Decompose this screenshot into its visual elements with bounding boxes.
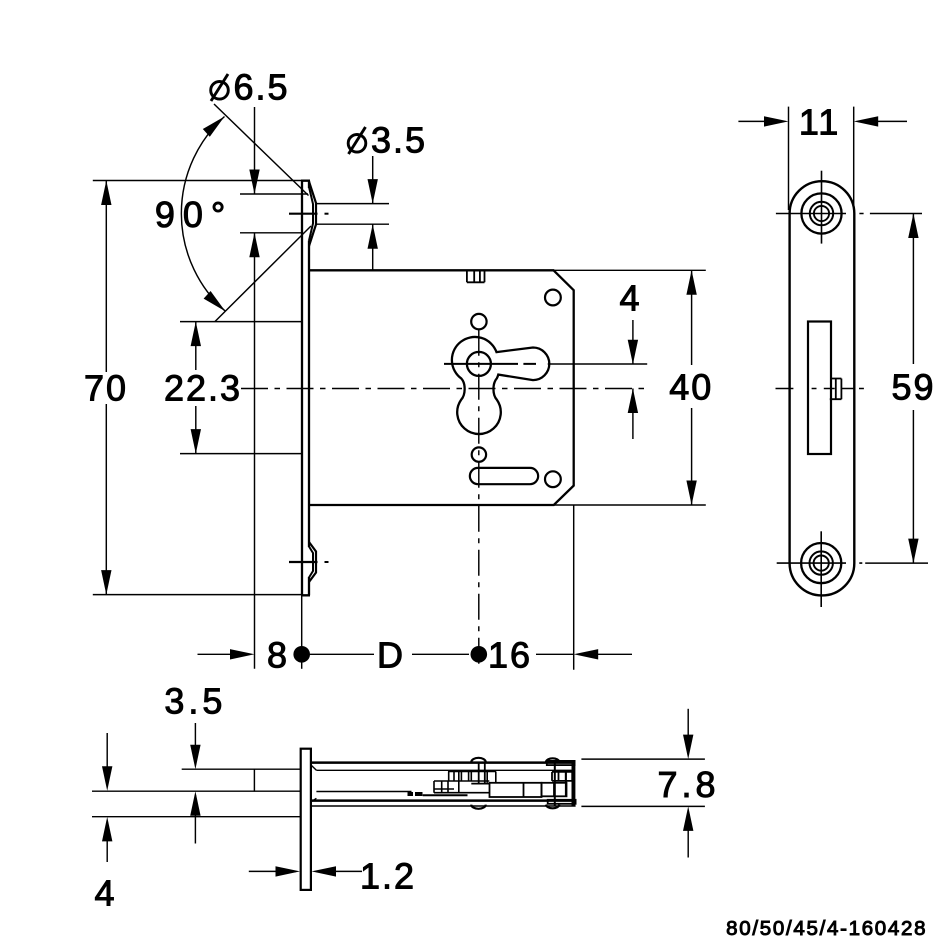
center line continuation through right view [776,388,864,390]
main horizontal center line [241,388,647,390]
bottom hole center tick [289,561,318,563]
svg-text:80/50/45/4-160428: 80/50/45/4-160428 [726,917,927,940]
top layer [182,769,301,791]
top screw hole circles [801,193,841,233]
svg-text:59: 59 [891,367,935,408]
dia6.5 extension lines [240,194,308,233]
case inner top line [316,769,574,771]
dim dia6.5 text [211,82,229,100]
keyhole outline [452,337,549,434]
dot at faceplate [293,646,310,663]
line 8-D [310,653,374,655]
dim 1.2 right arrow [312,866,337,876]
rivet hole bottom right [545,471,561,487]
top hole center tick [289,213,318,215]
svg-text:7.8: 7.8 [657,764,719,805]
end cap verticals [555,763,575,806]
bottom countersunk screw hole bulge outer [309,542,316,582]
rivet hole top right [545,290,561,306]
svg-text:90°: 90° [155,194,233,235]
svg-text:11: 11 [799,101,840,142]
bottom hole center dash [325,561,329,563]
lock case outline [309,270,574,505]
dia3.5 extension lines [316,204,389,225]
top hole crosshair [821,171,823,244]
dim 3.5 lower arrow [194,795,196,844]
svg-text:22.3: 22.3 [164,367,242,408]
dim 40 extension bottom [554,504,706,506]
bumps bottom [471,805,559,809]
right rect [542,783,567,797]
dim dia3.5 upper line [372,156,374,204]
dim 70 extension top [93,180,302,182]
top hole center dash [325,213,329,215]
dim 70 line [105,181,107,595]
dim 1.2 left arrow [249,870,296,872]
case bottom chamfer [311,798,316,802]
dim 59 line [912,214,914,564]
case inner bottom line [316,791,411,793]
dim dia6.5 lower line / extension to 8 [254,233,256,669]
cutout notch [830,379,842,400]
dim dia6.5 leader line upper [254,107,256,194]
faceplate extension down [301,596,303,669]
plate outline [790,181,855,595]
dim 40 extension top [554,269,706,271]
svg-text:4: 4 [619,278,641,319]
90 deg arc [181,117,225,312]
dim 7.8 arrows [687,709,689,755]
middle rect [490,783,542,797]
bottom countersunk screw hole bulge inner [309,547,313,578]
faceplate bar [301,749,311,890]
top countersunk screw hole bulge outer [309,182,316,247]
dim 22.3 extension top [180,321,302,323]
svg-text:8: 8 [267,634,289,675]
svg-text:3.5: 3.5 [164,681,226,722]
line 16-ext [536,653,574,655]
faceplate (front view, edge-on vertical plate) [301,181,310,596]
dot at keyhole center [471,646,488,663]
svg-text:16: 16 [488,634,532,675]
line D-dot [412,653,469,655]
dim 40 line [691,270,693,505]
top right bar [547,761,575,765]
case bottom thick line [311,799,576,802]
upper right boxes [552,772,572,781]
dim 11 extensions [789,107,854,210]
svg-text:70: 70 [84,367,128,408]
dim 70 extension bottom [93,594,302,596]
svg-text:4: 4 [94,873,116,914]
oval slot [470,468,538,484]
left arrow at 16 [574,649,599,659]
dim 4 upper arrow [632,320,634,364]
case top chamfer [311,765,316,770]
dim 7.8 extensions [581,759,705,806]
case back extension down [573,505,575,670]
pilot hole above keyhole [471,314,486,329]
90 deg cone line upper [214,104,309,196]
top countersunk screw hole bulge inner [309,187,313,241]
internal stack left [434,772,496,793]
dim 4 left lower arrow [106,821,108,862]
top notch [467,270,485,282]
bumps top [471,758,559,762]
cutout rectangle [808,322,831,455]
svg-text:3.5: 3.5 [371,120,427,161]
bottom screw hole circles [801,543,841,583]
dim dia3.5 lower line [372,224,374,269]
left mounting bar top/bottom [92,791,301,817]
bottom hole crosshair [820,531,822,607]
dim 4 lower arrow [632,389,634,440]
dim 22.3 line [195,322,197,454]
dim 59 bottom extension [865,562,928,564]
bottom right bar [548,800,576,804]
dim 59 top extension [870,213,922,215]
case bottom outer line [311,805,576,807]
svg-text:6.5: 6.5 [234,67,290,108]
keyhole inner circle [467,352,491,376]
dim 11 arrows [738,120,784,122]
keyhole horizontal crosshair [444,363,536,365]
dim 4 left upper arrow [106,733,108,786]
dark marks [408,792,414,796]
svg-text:D: D [377,634,405,675]
case top thick line [311,761,575,764]
keyhole horizontal extension to right [548,363,648,365]
svg-text:40: 40 [669,367,713,408]
bottom dim row: arrow 8 [198,653,251,655]
dim 22.3 extension bottom [180,453,302,455]
dim dia3.5 text [348,135,366,153]
key guide [471,763,489,784]
90 deg cone line lower [215,226,311,322]
pilot hole below keyhole [472,447,486,461]
dim 3.5 upper arrow [194,723,196,765]
svg-text:1.2: 1.2 [360,856,416,897]
mid line [423,794,468,796]
keyhole vertical center line (dash-dot) [478,330,480,669]
